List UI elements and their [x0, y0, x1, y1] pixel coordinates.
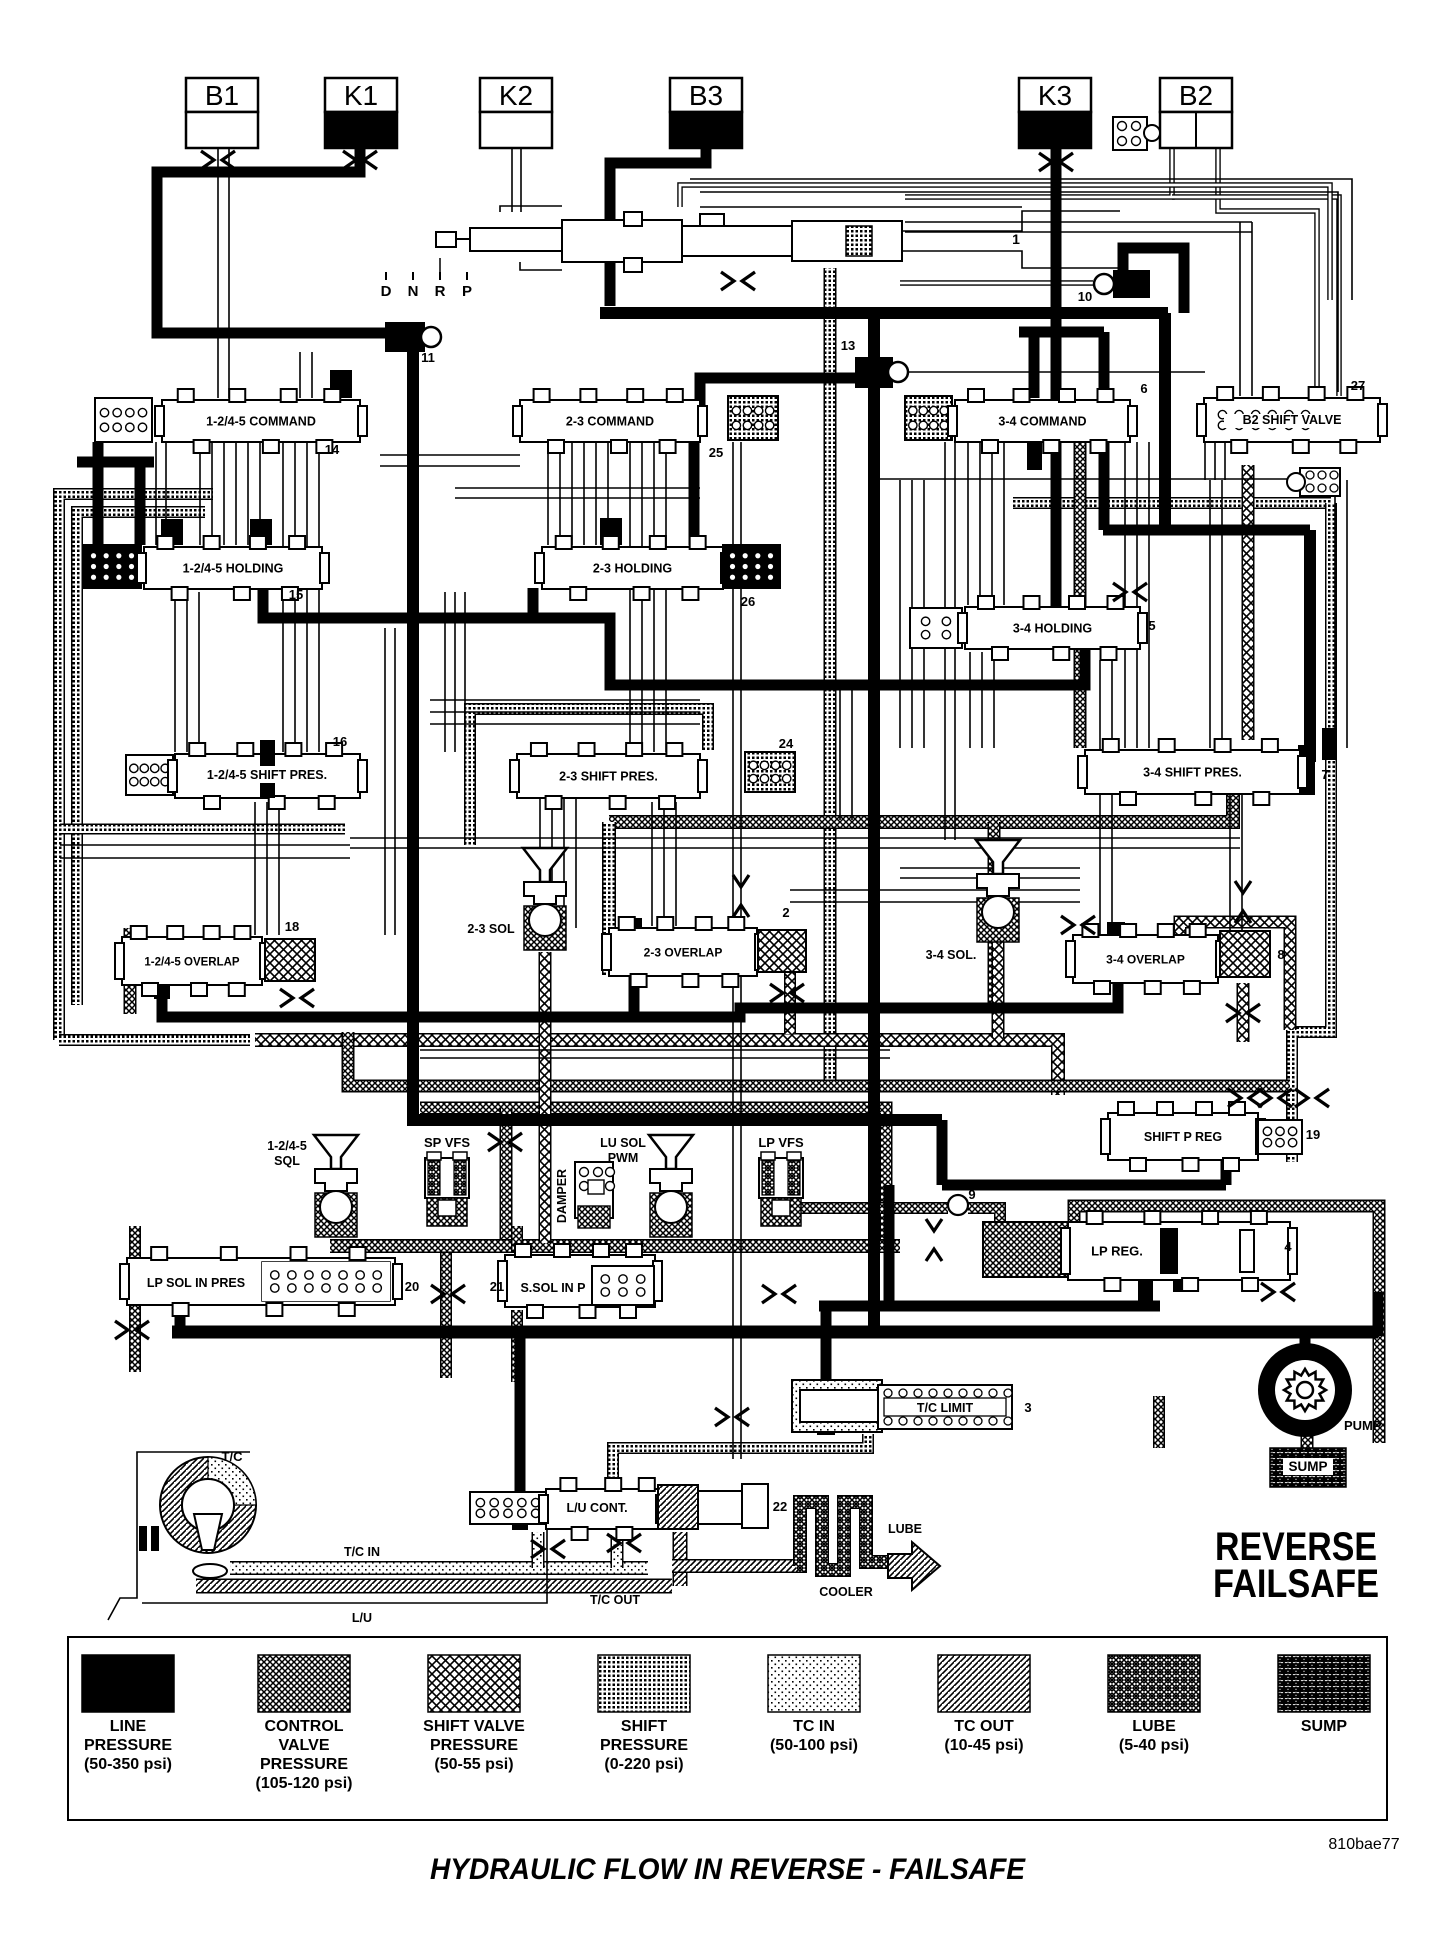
solenoid 1-2/4-5	[314, 1135, 358, 1237]
valve LP REG	[1061, 1211, 1297, 1291]
wire s-sol riser	[511, 1226, 523, 1252]
spring box 3-4 holding	[910, 608, 962, 648]
wire overlap feed line	[162, 977, 1118, 1017]
spring box shift p reg	[1258, 1120, 1302, 1154]
svg-text:K1: K1	[344, 80, 378, 111]
wire hbundle M1	[790, 901, 1080, 903]
wire bundle G0	[444, 592, 446, 752]
wire holding1 feed b	[135, 462, 146, 545]
svg-text:5: 5	[1148, 618, 1155, 633]
svg-text:LP SOL IN PRES: LP SOL IN PRES	[147, 1276, 245, 1290]
svg-text:2-3 SOL: 2-3 SOL	[467, 922, 515, 936]
svg-text:6: 6	[1140, 381, 1147, 396]
svg-text:PUMP: PUMP	[1344, 1418, 1382, 1433]
svg-text:S.SOL IN P: S.SOL IN P	[520, 1281, 585, 1295]
l/u cont spring box	[470, 1492, 546, 1524]
wire hbundle L0	[60, 844, 350, 846]
wire trunk x874	[868, 313, 880, 1336]
svg-text:D: D	[381, 283, 392, 300]
svg-text:19: 19	[1306, 1127, 1320, 1142]
wire bundle P3	[575, 798, 577, 928]
wire bundle AB1	[981, 652, 983, 748]
wire bundle T1	[851, 690, 853, 820]
wire bundle I0	[899, 480, 901, 748]
l/u cont right spool	[658, 1484, 768, 1529]
throttle K3	[1039, 153, 1073, 171]
wire sp drop x609	[602, 822, 616, 975]
wire tc enclosure	[108, 1452, 250, 1620]
svg-text:LUBE: LUBE	[888, 1522, 922, 1536]
wire B1 stem	[217, 148, 219, 398]
port stub command1 top c	[330, 370, 352, 398]
svg-text:PRESSURE: PRESSURE	[600, 1737, 688, 1754]
wire tc-in stub 1	[532, 1532, 545, 1568]
spool bar shift pres 1	[260, 740, 275, 798]
pressure switch B2	[1113, 117, 1160, 150]
wire bundle C1	[559, 442, 561, 545]
wire hbundle N2	[430, 723, 700, 725]
port stub 3-4 command bottom	[1027, 442, 1042, 470]
wire hbundle AD1	[900, 877, 1080, 879]
port stub 2-3 holding top	[600, 518, 622, 545]
svg-text:16: 16	[333, 734, 347, 749]
wire lp sol elbow	[175, 1302, 186, 1332]
wire bundle B1	[294, 442, 296, 752]
svg-text:(50-55 psi): (50-55 psi)	[434, 1756, 513, 1773]
wire hbundle X0	[380, 454, 520, 456]
svg-text:3-4 SOL.: 3-4 SOL.	[926, 948, 977, 962]
wire bundle C3	[583, 442, 585, 545]
pump	[1258, 1343, 1352, 1437]
wire hbundle W0	[905, 221, 1252, 223]
solenoid LP VFS	[759, 1152, 803, 1226]
wire bundle T0	[839, 690, 841, 820]
legend swatch tc out	[938, 1655, 1030, 1754]
wire B2 left stem routing	[1172, 197, 1339, 396]
wire top right line b	[690, 179, 1352, 300]
throttle 21	[762, 1285, 796, 1303]
svg-text:24: 24	[779, 736, 794, 751]
torque converter	[139, 1457, 256, 1578]
wire bundle E3	[1003, 442, 1005, 605]
wire tc-out riser	[673, 1532, 688, 1586]
valve 2-3 HOLDING	[535, 536, 730, 600]
svg-text:3-4 OVERLAP: 3-4 OVERLAP	[1106, 953, 1185, 967]
damper	[575, 1162, 615, 1228]
wire bundle D2	[653, 442, 655, 752]
lp sol circles	[262, 1262, 390, 1301]
wire main trunk x413	[413, 350, 942, 1120]
gear selector D N R P	[381, 258, 472, 300]
solenoid 2-3 SOL	[523, 848, 567, 950]
wire control-valve corridor A	[348, 1032, 1290, 1086]
pressure switch below B2 shift valve	[1287, 468, 1340, 496]
wire junction10 loop	[1123, 248, 1184, 313]
svg-text:2-3 HOLDING: 2-3 HOLDING	[593, 562, 672, 576]
wire right trunk x1165	[1159, 313, 1171, 530]
throttle lp reg out	[1261, 1283, 1295, 1301]
wire line-pressure y313	[600, 307, 1168, 319]
wire bundle AB2	[993, 652, 995, 748]
wire tc-out pipe	[196, 1579, 672, 1594]
svg-text:1-2/4-5 OVERLAP: 1-2/4-5 OVERLAP	[144, 957, 240, 969]
wire bundle G2	[464, 592, 466, 752]
wire hbundle X1	[380, 465, 520, 467]
wire hbundle W1	[905, 231, 1252, 233]
svg-text:1-2/4-5: 1-2/4-5	[267, 1139, 307, 1153]
wire 3-4 command feed a	[1019, 327, 1104, 338]
junction 13	[855, 357, 908, 388]
valve 2-3 SHIFT PRES	[510, 743, 707, 809]
svg-text:T/C LIMIT: T/C LIMIT	[917, 1401, 974, 1415]
wire bundle A5	[259, 442, 261, 545]
svg-text:L/U CONT.: L/U CONT.	[566, 1501, 627, 1515]
svg-text:(10-45 psi): (10-45 psi)	[944, 1737, 1023, 1754]
svg-text:CONTROL: CONTROL	[264, 1718, 343, 1735]
wire 2-3 command feed	[700, 378, 858, 426]
wire bundle A3	[235, 442, 237, 545]
wire 3-4 sol drain	[992, 933, 1005, 1038]
wire bundle A0	[199, 442, 201, 545]
wire bundle G1	[454, 592, 456, 752]
wire bundle S0	[1209, 480, 1211, 748]
label strip B2 shift valve	[1224, 414, 1364, 428]
wire bundle I2	[923, 480, 925, 748]
wire bundle V0	[1239, 222, 1241, 396]
wire bundle F0	[1124, 442, 1126, 748]
svg-text:LP REG.: LP REG.	[1091, 1244, 1143, 1259]
wire bundle B0	[282, 442, 284, 752]
wire bundle F2	[1148, 442, 1150, 748]
spring box 1-2/4-5 command	[95, 398, 152, 442]
wire L/U line	[142, 1529, 547, 1603]
wire tc-in pipe	[230, 1561, 648, 1575]
wire bundle A1	[211, 442, 213, 545]
svg-text:26: 26	[741, 594, 755, 609]
svg-text:3: 3	[1024, 1400, 1031, 1415]
svg-text:K3: K3	[1038, 80, 1072, 111]
t/c limit left spool	[800, 1390, 908, 1422]
clutch B3	[670, 78, 742, 148]
wire top right line a	[700, 192, 1338, 392]
wire pump left drain	[1153, 1396, 1165, 1448]
spring box 2-3 shift pres	[745, 752, 795, 792]
svg-text:(105-120 psi): (105-120 psi)	[256, 1775, 353, 1792]
wire valve1 to junction10	[900, 280, 1093, 286]
wire bundle Z2	[278, 802, 280, 935]
spring box 2-3 command	[728, 396, 778, 440]
throttle sp vfs	[488, 1133, 522, 1151]
svg-text:14: 14	[325, 442, 340, 457]
wire 2-3 command drop	[689, 442, 700, 545]
wire bundle Y1	[186, 592, 188, 752]
svg-text:SHIFT P REG: SHIFT P REG	[1144, 1130, 1222, 1144]
valve S.SOL IN P	[498, 1244, 662, 1318]
wire bundle J1	[1214, 442, 1216, 480]
svg-text:TC IN: TC IN	[793, 1718, 835, 1735]
valve 1-2/4-5 COMMAND	[155, 389, 367, 453]
wire 2-3 overlap right drain	[784, 972, 796, 1034]
svg-text:810bae77: 810bae77	[1328, 1836, 1399, 1853]
port stub command1 a	[161, 519, 183, 545]
wire bundle A4	[247, 442, 249, 545]
wire lp reg right drop	[1373, 1292, 1384, 1336]
wire hline 1075	[420, 1057, 890, 1059]
wire hbundle L1	[60, 857, 350, 859]
svg-text:TC OUT: TC OUT	[954, 1718, 1014, 1735]
svg-text:B2: B2	[1179, 80, 1213, 111]
wire 3-4 command stub a	[1029, 332, 1040, 398]
throttle cooler line	[715, 1408, 749, 1426]
port stub overlap1 bottom	[154, 979, 170, 999]
wire bundle J0	[1204, 442, 1206, 480]
wire line-pressure top header	[157, 148, 390, 333]
throttle manual valve	[721, 272, 755, 290]
valve 3-4 HOLDING	[958, 596, 1147, 660]
throttle 3-4 feed	[1061, 916, 1095, 934]
legend swatch control valve	[256, 1655, 353, 1792]
wire lower line y1306	[819, 1301, 1160, 1312]
svg-text:T/C: T/C	[222, 1449, 244, 1464]
wire lp-sol drain down	[129, 1305, 141, 1372]
svg-text:LUBE: LUBE	[1132, 1718, 1176, 1735]
throttle shift p reg a	[1228, 1089, 1262, 1107]
t/c limit left box	[792, 1380, 882, 1432]
wire hline 1065	[420, 1049, 890, 1051]
wire hline y530	[1103, 525, 1310, 536]
wire left drain bottom	[59, 1034, 250, 1046]
svg-text:2-3 COMMAND: 2-3 COMMAND	[566, 415, 654, 429]
svg-text:4: 4	[1284, 1239, 1292, 1254]
wire bundle H0	[384, 628, 386, 935]
wire bundle AA0	[651, 802, 653, 926]
clutch K1	[325, 78, 397, 148]
wire control-valve vertical x1080	[1074, 442, 1087, 748]
wire bundle R1	[1241, 794, 1243, 931]
port stub 3-4 overlap top	[1107, 922, 1125, 938]
wire pump to sump	[1301, 1432, 1314, 1450]
wire shift-pressure loop right of B2 shift valve	[1013, 497, 1331, 509]
svg-text:1-2/4-5 HOLDING: 1-2/4-5 HOLDING	[183, 562, 284, 576]
valve 3-4 OVERLAP	[1066, 924, 1225, 994]
svg-text:LINE: LINE	[110, 1718, 147, 1735]
svg-text:SP VFS: SP VFS	[424, 1135, 470, 1150]
svg-text:PWM: PWM	[608, 1151, 639, 1165]
wire bundle AB0	[969, 652, 971, 748]
hatch chamber LP REG	[983, 1222, 1068, 1277]
svg-text:2: 2	[782, 905, 789, 920]
wire control-valve solenoid rail y1246	[330, 1239, 900, 1253]
wire lower distribution	[942, 1180, 1226, 1191]
wire bundle E2	[991, 442, 993, 605]
wire hbundle M0	[790, 889, 1080, 891]
wire 3-4 overlap top loop	[1180, 922, 1290, 1030]
wire shift-valve stub shift-p-reg	[1114, 1116, 1126, 1158]
svg-text:11: 11	[421, 350, 435, 365]
svg-text:SHIFT VALVE: SHIFT VALVE	[423, 1718, 525, 1735]
wire control-valve riser x506	[500, 1108, 513, 1243]
wire lp-vfs to junction 9	[800, 1202, 948, 1214]
wire bundle B2	[306, 442, 308, 752]
throttle 3-4 holding	[1113, 583, 1147, 601]
throttle 2-3 overlap	[770, 984, 804, 1002]
wire bundle K0	[155, 442, 157, 545]
wire long pair a	[732, 442, 734, 1459]
port stub l/u cont tip	[512, 1500, 528, 1530]
wire 3-4 overlap drain	[1237, 983, 1250, 1042]
black box 1-2/4-5 holding	[84, 545, 141, 588]
wire bundle P0	[539, 798, 541, 928]
wire pressure switch line	[870, 478, 1295, 480]
legend swatch line pressure	[82, 1655, 174, 1773]
svg-text:DAMPER: DAMPER	[555, 1169, 569, 1223]
svg-text:3-4 COMMAND: 3-4 COMMAND	[998, 415, 1086, 429]
spring box 3-4 command	[905, 396, 952, 440]
clutch B1	[186, 78, 258, 148]
legend swatch shift pressure	[598, 1655, 690, 1773]
t/c limit body	[878, 1385, 1012, 1429]
port cap 3-4 holding	[1122, 608, 1139, 648]
wire shift-valve corridor y1040	[255, 1040, 1058, 1095]
t/c limit circles	[884, 1389, 892, 1397]
wire bundle Q0	[1099, 660, 1101, 935]
svg-text:2-3 OVERLAP: 2-3 OVERLAP	[644, 946, 723, 960]
wire bundle I1	[911, 480, 913, 748]
wire control-valve drop x994	[988, 822, 1001, 1010]
wire cooler coil	[796, 1502, 888, 1570]
legend swatch tc in	[768, 1655, 860, 1754]
wire K2 stem	[511, 148, 513, 212]
wire overlap left hatch	[124, 928, 137, 1014]
solenoid 3-4 SOL	[976, 840, 1020, 942]
wire tc-in stub 2	[611, 1535, 624, 1568]
wire 3-4 command stub b	[1099, 332, 1110, 398]
svg-text:K2: K2	[499, 80, 533, 111]
wire y1120 drop x942	[937, 1120, 948, 1185]
valve 3-4 SHIFT PRES	[1078, 739, 1307, 805]
valve LP SOL IN PRES	[120, 1247, 402, 1316]
t/c limit label box	[884, 1398, 1006, 1416]
legend swatch shift valve	[423, 1655, 525, 1773]
wire bundle Z0	[254, 802, 256, 935]
black box 2-3 holding	[723, 545, 780, 588]
wire lower vert x889	[884, 1185, 895, 1303]
port stub 2-3 overlap left	[626, 918, 642, 932]
wire bundle E1	[979, 442, 981, 605]
wire bundle AA1	[663, 802, 665, 926]
throttle shift p reg b	[1258, 1089, 1292, 1107]
hatch box 2-3 overlap	[758, 930, 806, 972]
wire hbundle N0	[430, 699, 700, 701]
wire 2-3 overlap bottom port	[629, 968, 640, 1017]
svg-text:COOLER: COOLER	[819, 1585, 872, 1599]
wire bundle C5	[607, 442, 609, 545]
port stub lp reg bottom a	[1138, 1280, 1153, 1306]
clutch K2	[480, 78, 552, 148]
valve 1-2/4-5 SHIFT PRES	[168, 743, 367, 809]
hatch box 1-2/4-5 overlap	[265, 939, 315, 981]
svg-text:T/C OUT: T/C OUT	[590, 1593, 640, 1607]
wire pump suction loop	[1074, 1206, 1379, 1443]
throttle K1	[343, 151, 377, 169]
wire lp-sol riser	[129, 1226, 141, 1258]
svg-text:1-2/4-5 SHIFT PRES.: 1-2/4-5 SHIFT PRES.	[207, 768, 327, 782]
wire bundle P1	[551, 798, 553, 928]
wire bundle A2	[223, 442, 225, 545]
svg-text:SUMP: SUMP	[1288, 1459, 1327, 1474]
wire control-valve corridor B	[420, 1108, 886, 1243]
svg-text:FAILSAFE: FAILSAFE	[1213, 1562, 1379, 1606]
wire 2-3 holding stem	[528, 588, 539, 620]
clutch B2	[1160, 78, 1232, 148]
wire bundle E0	[967, 442, 969, 605]
wire bundle D1	[641, 442, 643, 752]
svg-text:B2 SHIFT VALVE: B2 SHIFT VALVE	[1243, 413, 1342, 427]
wire bundle H1	[394, 628, 396, 935]
wire bundle P2	[563, 798, 565, 928]
svg-text:22: 22	[773, 1499, 787, 1514]
svg-text:SUMP: SUMP	[1301, 1718, 1348, 1735]
wire hbundle AC1	[455, 497, 700, 499]
check valve 3-4 overlap	[1235, 881, 1251, 923]
svg-text:L/U: L/U	[352, 1611, 372, 1625]
svg-text:13: 13	[841, 338, 855, 353]
junction 10	[1094, 270, 1150, 298]
valve 1-2/4-5 OVERLAP	[115, 926, 269, 996]
solenoid LU SOL PWM	[649, 1135, 693, 1237]
solenoid SP VFS	[425, 1152, 469, 1226]
legend swatch lube	[1108, 1655, 1200, 1754]
wire right trunk x1310	[1304, 530, 1316, 762]
svg-text:3-4 SHIFT PRES.: 3-4 SHIFT PRES.	[1143, 766, 1242, 780]
valve 1-2/4-5 HOLDING	[137, 536, 329, 600]
wire bundle V1	[1251, 222, 1253, 396]
wire control-valve corridor y822	[609, 788, 1233, 822]
wire shift-pressure loop mid	[470, 709, 708, 845]
svg-text:27: 27	[1351, 378, 1365, 393]
wire t/c limit drain	[613, 1434, 868, 1490]
wire holding1 feed h	[77, 457, 154, 468]
wire bundle S2	[1334, 480, 1336, 748]
svg-text:VALVE: VALVE	[279, 1737, 330, 1754]
svg-text:B3: B3	[689, 80, 723, 111]
junction 11	[385, 322, 441, 352]
wire control-valve riser x446	[440, 1252, 452, 1378]
wire cooler feed	[672, 1559, 796, 1573]
svg-text:8: 8	[1277, 947, 1284, 962]
spring box 1-2/4-5 shift pres	[126, 755, 173, 795]
check valve junction 9	[926, 1219, 942, 1261]
svg-text:P: P	[462, 283, 472, 300]
svg-text:15: 15	[289, 587, 303, 602]
svg-text:9: 9	[968, 1187, 975, 1202]
svg-text:(50-350 psi): (50-350 psi)	[84, 1756, 172, 1773]
wire hbundle AD0	[900, 867, 1080, 869]
wire holding row line	[263, 588, 1085, 685]
valve 2-3 OVERLAP	[602, 917, 764, 987]
valve 2-3 COMMAND	[513, 389, 707, 453]
wire 2-3 sol drain	[539, 952, 552, 1243]
port stub command1 b	[250, 519, 272, 545]
wire sv drop x1248	[1242, 465, 1255, 740]
lp reg internals	[1160, 1228, 1254, 1274]
wire K2 stem 2	[520, 148, 522, 212]
svg-text:SQL: SQL	[274, 1154, 300, 1168]
svg-text:PRESSURE: PRESSURE	[84, 1737, 172, 1754]
wire bundle J2	[1224, 442, 1226, 480]
lube arrow	[888, 1542, 940, 1590]
wire bundle AA2	[675, 802, 677, 926]
